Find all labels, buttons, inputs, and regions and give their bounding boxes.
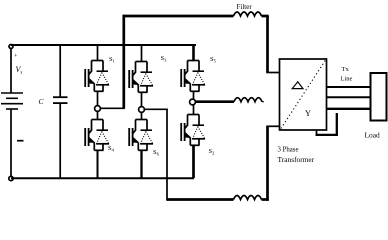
- wire leg3 bottom lead: [192, 145, 195, 178]
- IGBT switch S3: [129, 62, 153, 93]
- delta symbol: [292, 82, 303, 89]
- wire leg3 mid lower: [193, 105, 195, 115]
- wire phase C bottom run: [167, 198, 234, 201]
- svg-text:S1: S1: [109, 56, 115, 64]
- IGBT switch S6: [129, 120, 153, 151]
- wire phase A after coil: [262, 15, 269, 18]
- svg-text:3 Phase: 3 Phase: [278, 147, 299, 154]
- svg-text:+: +: [14, 54, 18, 60]
- transformer diagonal: [281, 60, 326, 129]
- wire leg1 mid upper: [97, 91, 99, 105]
- wire phase B tail: [262, 101, 264, 103]
- wire phase A right drop: [266, 16, 269, 73]
- wire phase B run: [195, 100, 234, 103]
- wire phase A from node a: [100, 107, 124, 109]
- wire leg2 mid upper: [141, 92, 143, 106]
- IGBT switch S1: [85, 61, 109, 92]
- IGBT switch S5: [181, 61, 205, 92]
- wire neutral bottom run: [316, 134, 339, 136]
- terminal node bottom: [9, 176, 13, 180]
- Tx line 2: [327, 96, 371, 98]
- svg-text:Transformer: Transformer: [278, 155, 315, 164]
- filter inductor phase B: [234, 98, 262, 102]
- svg-text:S4: S4: [108, 145, 115, 153]
- transformer box U1: [280, 59, 327, 130]
- wire leg1 bottom lead: [97, 150, 99, 178]
- svg-text:S5: S5: [210, 56, 217, 64]
- wire capacitor top lead: [59, 45, 61, 97]
- wire phase C from node c: [144, 108, 167, 110]
- wire phase A top run: [123, 15, 234, 18]
- wire phase C from node c riser down: [166, 109, 168, 201]
- svg-text:Line: Line: [341, 76, 353, 83]
- wire neutral stub from transformer bottom: [316, 130, 318, 137]
- capacitor C: [53, 97, 68, 103]
- wire phase C after coil: [262, 198, 269, 201]
- wire phase C into transformer: [266, 125, 280, 127]
- node c: [139, 107, 145, 113]
- wire capacitor bottom lead: [59, 103, 61, 178]
- svg-text:Load: Load: [365, 131, 380, 140]
- svg-text:Vs: Vs: [16, 65, 23, 76]
- wire phase C right riser: [266, 126, 269, 200]
- wire phase A riser: [122, 15, 125, 108]
- svg-text:S2: S2: [209, 148, 215, 156]
- terminal node top: [9, 45, 13, 49]
- battery Vs: [1, 93, 23, 109]
- label -: [17, 140, 24, 142]
- node a: [95, 106, 101, 112]
- svg-text:S3: S3: [161, 55, 168, 63]
- Tx line 3: [327, 108, 371, 110]
- Tx line 1: [327, 86, 371, 88]
- svg-text:Y: Y: [305, 109, 311, 118]
- filter inductor phase C: [234, 196, 262, 200]
- wire battery top lead: [10, 49, 12, 94]
- wire leg2 bottom lead: [140, 150, 142, 178]
- IGBT switch S4: [85, 120, 109, 151]
- wire battery bottom lead: [10, 109, 12, 176]
- wire phase A into transformer: [266, 72, 280, 74]
- IGBT switch S2: [181, 115, 205, 146]
- filter inductor phase A: [234, 12, 262, 16]
- wire leg2 mid lower: [141, 112, 143, 119]
- wire neutral riser: [336, 113, 338, 136]
- node b: [190, 99, 196, 105]
- svg-text:C: C: [39, 97, 45, 106]
- svg-text:Filter: Filter: [237, 3, 253, 11]
- wire leg2 top lead: [141, 45, 143, 62]
- bottom DC rail: [11, 177, 194, 179]
- load box: [371, 73, 387, 121]
- wire leg1 top lead: [97, 45, 99, 61]
- wire leg3 mid upper: [193, 91, 195, 99]
- svg-text:S6: S6: [153, 149, 160, 157]
- wire leg1 mid lower: [97, 111, 99, 119]
- top DC rail: [11, 44, 196, 46]
- wire leg3 top lead: [192, 45, 195, 61]
- svg-text:Tx: Tx: [342, 66, 350, 73]
